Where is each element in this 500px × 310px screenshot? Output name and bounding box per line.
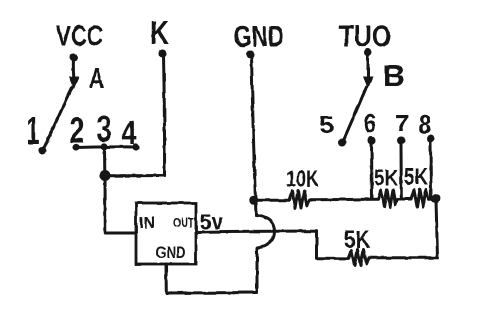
wire junction to regulator IN: [105, 177, 136, 233]
regulator U1 box: [136, 203, 196, 264]
svg-text:IN: IN: [139, 215, 155, 232]
wire pin 6 down: [370, 142, 374, 198]
wire between 5K resistors: [398, 198, 412, 201]
wire resistor row right segment: [429, 197, 436, 200]
node contact 5: [339, 139, 347, 147]
node contact 1: [39, 147, 47, 155]
svg-text:GND: GND: [234, 21, 284, 54]
wire bottom 5K right segment: [369, 256, 438, 259]
svg-text:A: A: [89, 63, 104, 95]
node resistor row right junction: [431, 194, 440, 203]
svg-text:K: K: [150, 14, 169, 51]
wire K vertical: [164, 55, 165, 176]
node pin 3: [101, 143, 108, 150]
svg-text:6: 6: [364, 109, 376, 139]
switch B wiper: [344, 87, 367, 140]
wire pin 7 down: [400, 142, 403, 198]
svg-text:5K: 5K: [404, 164, 428, 190]
svg-text:VCC: VCC: [56, 21, 103, 53]
wire pin3 down to junction: [103, 148, 106, 174]
switch A arrowhead: [69, 77, 79, 90]
node 10K left junction: [249, 196, 257, 204]
switch A wiper: [44, 87, 73, 149]
switch B arrowhead: [363, 77, 373, 90]
wire GND vertical: [252, 56, 257, 216]
node VCC terminal: [70, 54, 78, 62]
node main junction: [100, 171, 111, 182]
wire GND return to regulator: [166, 264, 257, 293]
node pin 6: [368, 137, 376, 145]
wire resistor row left segment: [254, 199, 289, 202]
node TUO terminal: [364, 49, 372, 57]
svg-text:OUT: OUT: [173, 215, 194, 230]
svg-text:7: 7: [395, 110, 409, 136]
wire 5V corner down: [315, 231, 318, 258]
wire right column down: [436, 200, 438, 258]
wire GND below hop: [256, 248, 259, 293]
wire resistor row mid segment: [310, 198, 379, 202]
wire pins 2-3-4 bus: [75, 145, 137, 149]
switch B pole wire: [367, 54, 370, 79]
svg-text:1: 1: [27, 109, 40, 153]
svg-text:5: 5: [319, 112, 334, 139]
svg-text:GND: GND: [156, 243, 186, 262]
wire pin 8 down: [429, 141, 433, 198]
node K terminal: [159, 50, 167, 58]
resistor 5K first: [378, 190, 398, 207]
svg-text:5K: 5K: [374, 165, 398, 191]
node pin 4: [132, 143, 139, 150]
node pin 7: [397, 137, 405, 145]
node GND terminal: [247, 51, 255, 59]
svg-text:5K: 5K: [344, 226, 370, 254]
node pin 2: [72, 143, 79, 150]
switch A pole wire: [72, 59, 76, 79]
svg-text:8: 8: [419, 109, 432, 139]
wire K to junction: [106, 174, 165, 177]
svg-text:B: B: [383, 58, 405, 93]
wire bottom 5K left segment: [317, 257, 349, 260]
node pin 8: [427, 135, 435, 143]
resistor 10K: [289, 191, 310, 209]
resistor 5K bottom: [349, 250, 370, 266]
wire hop over 5V: [256, 216, 275, 249]
svg-text:10K: 10K: [286, 166, 319, 192]
svg-text:TUO: TUO: [339, 20, 391, 53]
resistor 5K second: [411, 190, 429, 207]
wire regulator OUT to corner: [196, 230, 317, 234]
